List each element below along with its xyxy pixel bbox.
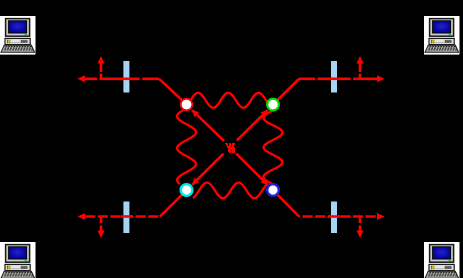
wire: bottom-left bus crossing bar	[121, 215, 133, 218]
arrow: into green node	[261, 110, 268, 117]
wire: top-left diagonal into white node	[159, 79, 182, 101]
coupler bar bottom-right (filter plate)	[331, 202, 337, 234]
coupler bar top-left (filter plate)	[123, 61, 129, 93]
arrow: top-right up arrowhead	[357, 56, 364, 64]
wire: top-right up branch (dashed)	[359, 63, 362, 79]
wavy link: left (white node to cyan node)	[177, 109, 196, 184]
wire: top-left horizontal bus (dashed)	[84, 78, 159, 81]
node: white (top-left user port)	[181, 99, 193, 111]
computer workstation bottom-left	[0, 242, 36, 278]
wavy link: top (white node to green node)	[191, 93, 269, 108]
arrow: bottom-left down arrowhead	[98, 231, 105, 239]
wavy link: bottom (cyan node to blue node)	[193, 183, 267, 199]
arrow: top-left bus output arrowhead (left)	[78, 75, 86, 82]
wire: diagonal white-to-blue upper half	[192, 110, 224, 141]
arrow: top-left up arrowhead	[98, 56, 105, 64]
wire: bottom-right diagonal into blue node	[277, 195, 299, 217]
wire: bottom-right horizontal bus (dashed)	[299, 215, 377, 218]
coupler bar top-right (filter plate)	[331, 61, 337, 93]
computer workstation top-right	[424, 16, 460, 55]
wire: bottom-left diagonal into cyan node	[160, 195, 182, 217]
wire: diagonal green-to-cyan upper half	[237, 110, 268, 141]
wire: top-right bus crossing bar	[328, 78, 340, 81]
wire: bottom-right bus crossing bar	[328, 215, 340, 218]
computer workstation top-left	[0, 16, 36, 55]
wire: diagonal green-to-cyan lower half	[192, 154, 223, 185]
node: blue (bottom-right user port)	[267, 184, 279, 196]
arrow: into cyan node	[192, 178, 199, 185]
wire: bottom-left down branch (dashed)	[100, 217, 103, 232]
wire: top-right diagonal into green node	[277, 79, 299, 101]
node: green (top-right user port)	[267, 99, 279, 111]
arrow: bottom-right bus output arrowhead (right)	[377, 213, 385, 220]
wire: bottom-left horizontal bus (dashed)	[84, 215, 160, 218]
source symbol glyph at center	[225, 143, 235, 153]
wavy link: right (green node to blue node)	[264, 111, 283, 185]
arrow: top-right bus output arrowhead (right)	[377, 75, 385, 82]
coupler bar bottom-left (filter plate)	[123, 202, 129, 234]
wire: top-left bus crossing bar	[121, 78, 133, 81]
computer workstation bottom-right	[424, 242, 460, 278]
arrow: into blue node	[261, 178, 268, 185]
wire: top-left up branch (dashed)	[100, 63, 103, 79]
wire: bottom-right down branch (dashed)	[359, 217, 362, 232]
arrow: bottom-right down arrowhead	[357, 231, 364, 239]
arrow: bottom-left bus output arrowhead (left)	[78, 213, 86, 220]
wire: top-right horizontal bus (dashed)	[299, 78, 377, 81]
node: cyan (bottom-left user port)	[181, 184, 193, 196]
wire: diagonal white-to-blue lower half	[236, 154, 268, 185]
arrow: into white node	[192, 110, 199, 117]
